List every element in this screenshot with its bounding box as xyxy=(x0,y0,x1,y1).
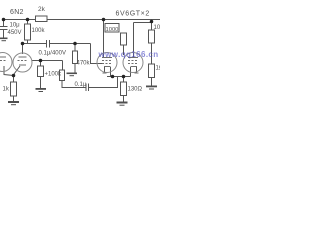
resistor 100k bottom lead xyxy=(27,40,29,44)
svg-text:450V: 450V xyxy=(8,30,22,36)
svg-text:·130Ω: ·130Ω xyxy=(126,87,143,93)
tube V3 envelope xyxy=(123,53,143,73)
svg-text:100k: 100k xyxy=(32,28,46,34)
pentode V2 electrodes xyxy=(102,57,112,59)
pentode V2 grid leg xyxy=(110,67,112,77)
resistor 100k grid body xyxy=(38,66,44,77)
resistor 1000 body xyxy=(105,24,119,33)
ground 470k xyxy=(67,73,78,77)
ground right xyxy=(146,86,157,90)
node screen feed xyxy=(150,20,154,24)
wire lower coupling to grid riser xyxy=(89,77,118,88)
svg-text:1Ω: 1Ω xyxy=(156,66,161,72)
triode V1b electrodes xyxy=(19,56,27,58)
pentode V2 cathode leg xyxy=(104,67,106,73)
pentode V3 cathode leg xyxy=(136,67,138,73)
wire right column drop xyxy=(151,20,153,31)
svg-text:0.1μ/400V: 0.1μ/400V xyxy=(39,51,66,57)
node rail V2 plate xyxy=(102,18,106,22)
node grid bus right xyxy=(122,75,126,79)
capacitor 10u plates xyxy=(0,27,8,30)
node cathode divider xyxy=(39,59,43,63)
resistor 130 body xyxy=(121,82,127,96)
svg-text:1k: 1k xyxy=(3,87,10,93)
resistor 470k top lead xyxy=(74,44,76,52)
resistor 100k grid top lead xyxy=(40,61,42,67)
wire between right resistors xyxy=(151,43,153,64)
ground filter cap xyxy=(0,38,8,42)
triode V1b plate lead xyxy=(22,44,24,55)
node rail 100k xyxy=(26,18,30,22)
resistor 100k grid bottom lead xyxy=(40,77,42,89)
tube V1b envelope xyxy=(13,53,32,72)
wire screen feed line xyxy=(134,22,154,24)
capacitor 0.1u lower plates xyxy=(86,84,89,92)
triode V1b cathode lead xyxy=(14,66,20,74)
ground grid 100k xyxy=(36,88,47,92)
resistor 130 top lead xyxy=(123,77,125,83)
resistor 1ohm bottom lead xyxy=(151,78,153,86)
tube V2 envelope xyxy=(97,53,117,73)
svg-text:www.qq166.cn: www.qq166.cn xyxy=(98,50,159,59)
resistor 100k top lead xyxy=(27,20,29,25)
svg-text:1000: 1000 xyxy=(106,27,119,33)
wire to lower 100k resistor xyxy=(62,61,64,71)
capacitor 10u top lead xyxy=(3,20,5,27)
wire coupling cap to corner xyxy=(50,43,91,45)
ground 1k xyxy=(8,101,19,105)
resistor 10 body xyxy=(149,30,155,43)
svg-text:6V6GT×2: 6V6GT×2 xyxy=(116,11,150,18)
capacitor 0.1u top plates xyxy=(47,40,50,48)
resistor 1ohm body xyxy=(149,64,155,78)
resistor screen body xyxy=(121,33,127,45)
svg-text:470k: 470k xyxy=(77,61,91,67)
resistor lower 100k bottom lead xyxy=(62,81,86,88)
ground 130 xyxy=(117,102,128,106)
wire grid feed corner down xyxy=(91,44,103,64)
wire grid bus 6V6 xyxy=(107,76,131,78)
svg-text:10μ: 10μ xyxy=(10,23,21,29)
resistor 1k top lead xyxy=(13,76,15,83)
node rail left xyxy=(2,18,6,22)
wire plate node to coupling cap xyxy=(23,43,47,45)
svg-text:2k: 2k xyxy=(38,6,46,13)
node grid bus left xyxy=(111,75,115,79)
pentode V2 plate lead xyxy=(103,20,105,58)
node 1k cathode xyxy=(12,74,16,78)
svg-text:6N2: 6N2 xyxy=(10,9,24,16)
resistor 470k bottom lead xyxy=(74,64,76,73)
pentode V3 plate lead xyxy=(133,23,135,58)
svg-text:10: 10 xyxy=(154,25,161,31)
wire B+ rail right segment xyxy=(47,19,160,21)
capacitor 10u bottom lead xyxy=(3,30,5,38)
resistor 470k body xyxy=(73,51,78,64)
pentode V3 grid leg xyxy=(130,67,132,77)
tube V1a envelope xyxy=(0,53,12,72)
resistor lower 100k body xyxy=(60,70,65,81)
resistor 2k body xyxy=(36,16,48,22)
wire cathode line B xyxy=(32,60,63,62)
resistor 100k body xyxy=(25,24,31,40)
resistor 130 bottom lead xyxy=(123,96,125,102)
triode V1a electrodes xyxy=(0,56,6,58)
node 470k xyxy=(73,42,77,46)
pentode V3 electrodes xyxy=(128,57,138,59)
node V1b plate xyxy=(21,42,25,46)
triode V1a cathode lead xyxy=(4,66,14,76)
resistor 1k body xyxy=(11,82,17,96)
svg-text:+100k: +100k xyxy=(45,72,63,78)
resistor screen bottom lead xyxy=(123,45,125,55)
svg-text:0.1μ: 0.1μ xyxy=(75,82,87,88)
wire B+ rail left segment xyxy=(2,19,36,21)
resistor 1k bottom lead xyxy=(13,96,15,101)
